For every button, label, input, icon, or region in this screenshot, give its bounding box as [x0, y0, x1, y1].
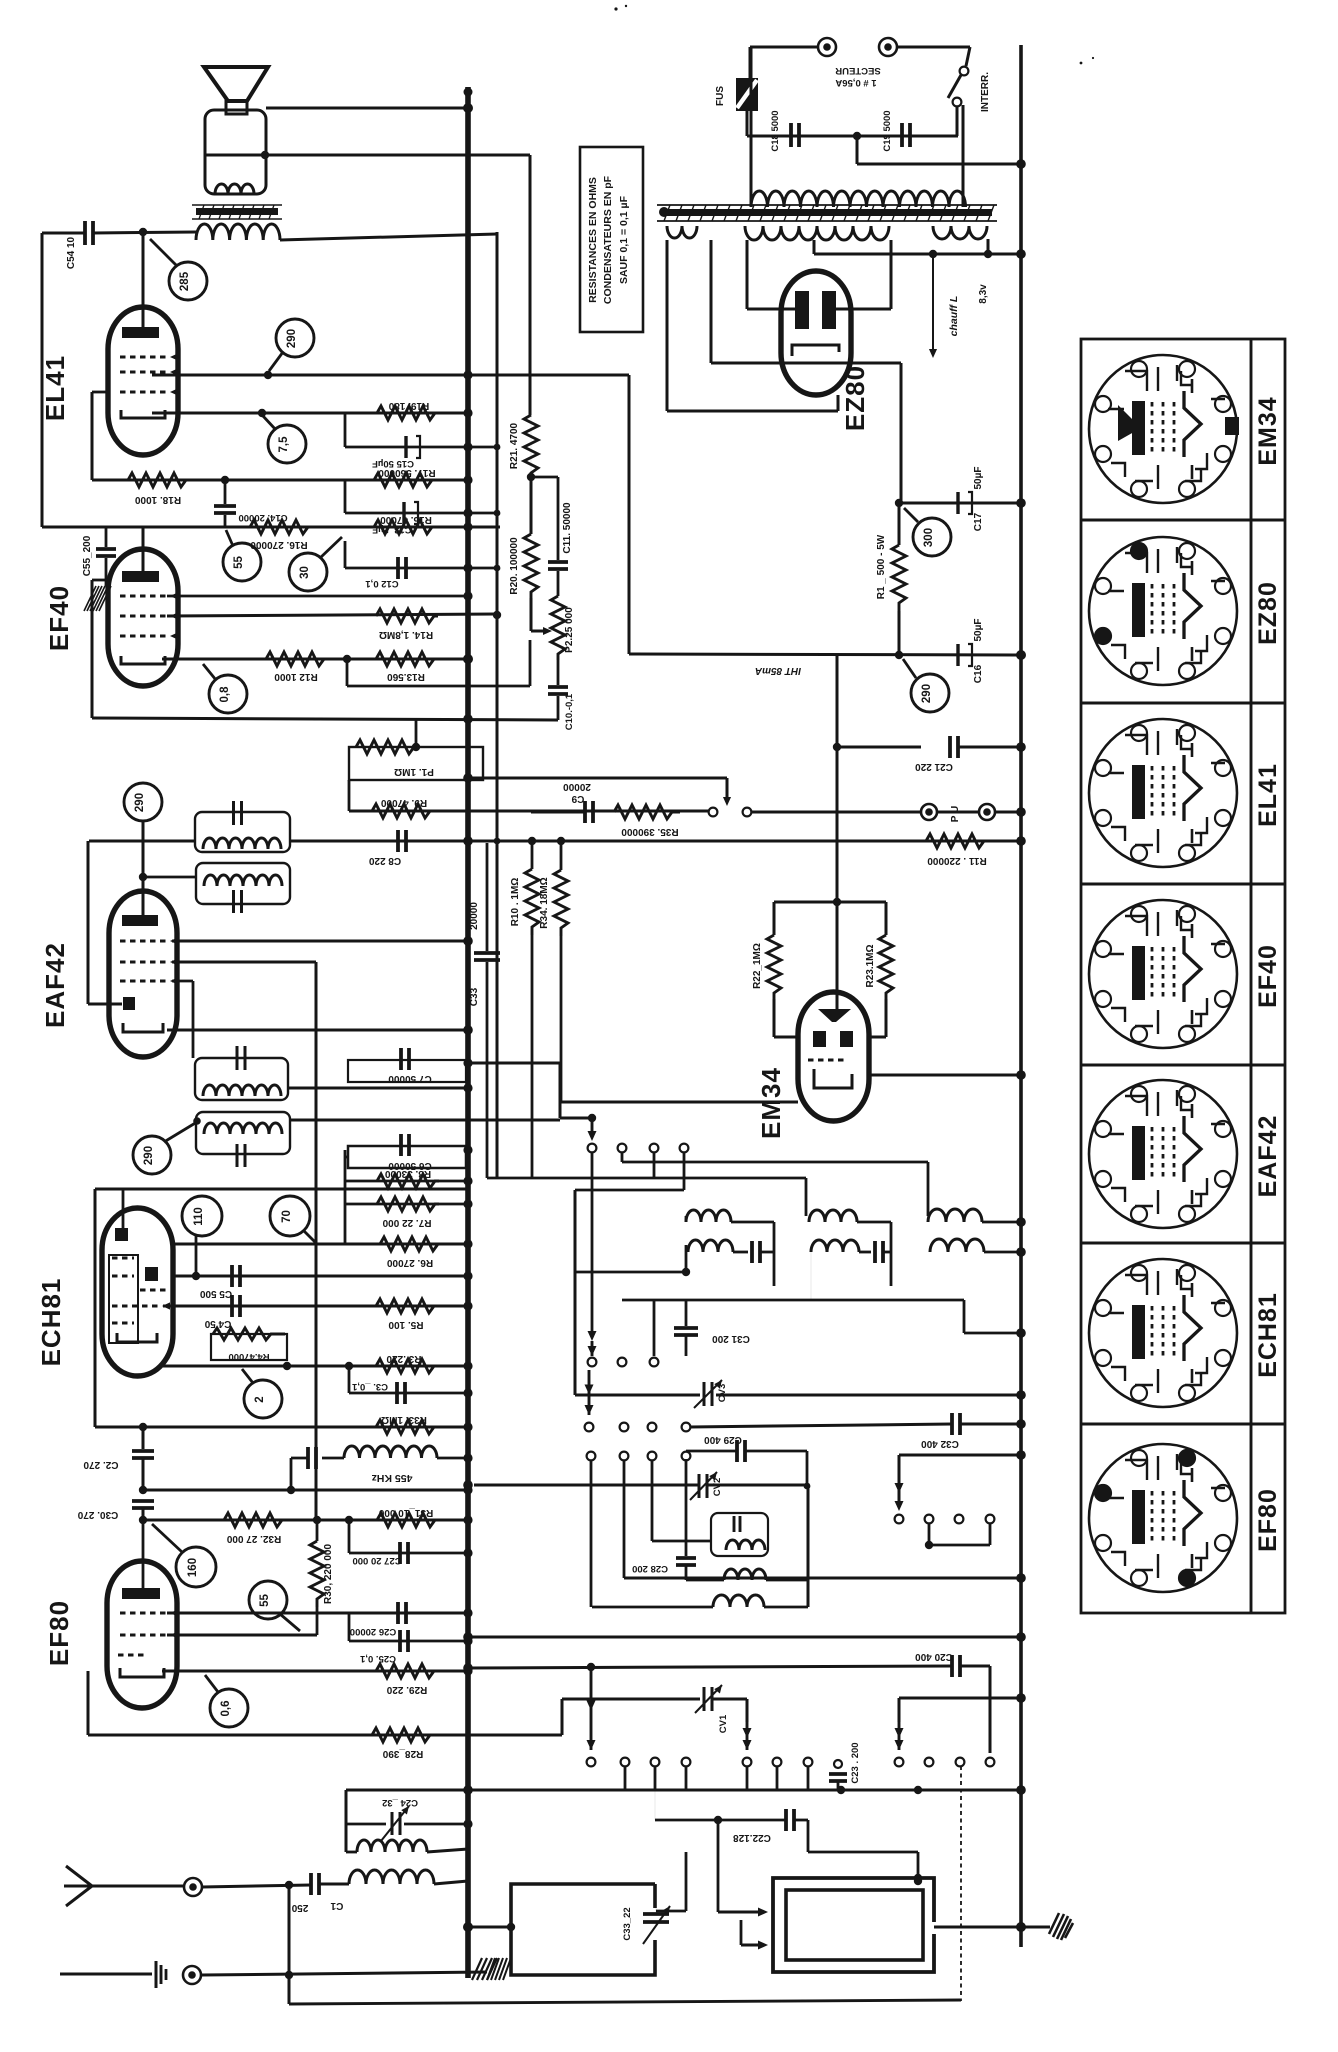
svg-text:C27 20 000: C27 20 000 [352, 1555, 401, 1566]
svg-text:R30, 220 000: R30, 220 000 [323, 1544, 334, 1604]
tube EAF42 envelope [109, 891, 177, 1057]
switch column [591, 1152, 594, 1334]
wire screen line [152, 374, 629, 377]
resistor R11 220000 [926, 834, 988, 848]
capacitor C54 10 [42, 232, 85, 235]
tube chart frame [1081, 339, 1285, 1613]
svg-text:EM34: EM34 [756, 1067, 786, 1139]
svg-text:C22.128: C22.128 [733, 1832, 771, 1843]
wire wave band line [346, 1789, 1021, 1792]
capacitor C31 200 [685, 1300, 688, 1326]
capacitor C30 270 [132, 1499, 154, 1503]
bus bottom ground hatch [472, 1958, 497, 1980]
svg-text:R22_1MΩ: R22_1MΩ [752, 943, 763, 989]
wire box1 to bus [468, 1926, 511, 1929]
svg-text:C24 _32: C24 _32 [382, 1797, 418, 1808]
wire EM34 cathode to bus [869, 1074, 1021, 1077]
svg-text:C20 400: C20 400 [915, 1651, 953, 1662]
wire HT left anode [746, 240, 749, 309]
wire rectifier heater loop [666, 240, 669, 411]
svg-text:C26 20000: C26 20000 [350, 1626, 396, 1637]
wire C22 line [654, 1766, 656, 1820]
IF transformer box 3 [195, 1058, 288, 1100]
tube socket EM34 electrodes [1132, 401, 1145, 455]
wire IF1 left lead [89, 840, 195, 843]
tube socket ECH81 pins [1179, 1265, 1195, 1281]
svg-text:C2. 270: C2. 270 [83, 1459, 118, 1470]
svg-text:C25. 0,1: C25. 0,1 [359, 1653, 396, 1664]
wire [651, 1460, 654, 1541]
wire box2 feeds [717, 1820, 720, 1912]
wire heater arrow [932, 254, 934, 352]
capacitor C27 20000 [348, 1520, 351, 1553]
tube EZ80 envelope [781, 271, 851, 395]
svg-text:C23 . 200: C23 . 200 [850, 1742, 861, 1783]
tube EF40 grids [120, 595, 166, 598]
svg-text:C29 400: C29 400 [704, 1434, 742, 1445]
tube chart label divider [1250, 339, 1253, 1613]
node 290 screen [276, 319, 314, 357]
coil 455 ter [713, 1595, 764, 1607]
capacitor C4 50 [163, 1305, 468, 1308]
node 0,8 [209, 675, 247, 713]
ground terminal lead [60, 1973, 152, 1976]
tube socket EAF42 pins [1179, 1086, 1195, 1102]
capacitor C10 0,1 [557, 660, 560, 685]
wire IF3 right lead [288, 1087, 468, 1090]
resistor R19 180 [377, 406, 441, 420]
svg-text:0,6: 0,6 [220, 1701, 232, 1717]
switch wiper arrow rows [588, 1370, 591, 1415]
svg-text:C54 10: C54 10 [66, 236, 77, 269]
wire anode drop [142, 232, 145, 330]
tube socket EL41 circle [1089, 719, 1237, 867]
tube EF80 anode [122, 1588, 160, 1599]
svg-text:R13.560: R13.560 [387, 671, 425, 682]
svg-text:250: 250 [291, 1902, 308, 1913]
capacitor C1 250 [202, 1885, 311, 1887]
wire IF2 left lead [143, 876, 196, 879]
tuning gang box 2 [773, 1878, 934, 1972]
wire fuse out [746, 111, 749, 136]
switch contact stubs [624, 1766, 627, 1790]
svg-text:EZ80: EZ80 [840, 365, 870, 431]
svg-text:ECH81: ECH81 [36, 1278, 66, 1367]
coil IF3 [203, 1085, 281, 1096]
svg-text:C3. _0,1: C3. _0,1 [351, 1381, 388, 1392]
svg-text:CV2: CV2 [712, 1478, 723, 1496]
tube socket EF80 circle [1089, 1444, 1237, 1592]
tube socket EF80 electrodes [1132, 1490, 1145, 1544]
svg-text:285: 285 [179, 271, 191, 291]
svg-text:CV3: CV3 [717, 1384, 728, 1402]
svg-text:C21 220: C21 220 [915, 761, 953, 772]
svg-text:EAF42: EAF42 [1254, 1115, 1282, 1198]
resistor R32 27000 [224, 1513, 282, 1527]
wire CV1 step [562, 1698, 700, 1701]
switch contacts row 2 [588, 1358, 597, 1367]
wire [621, 1152, 624, 1162]
capacitor C23 200 [834, 1760, 842, 1768]
resistor R5 100 [376, 1299, 438, 1313]
tube socket EL41 internal wiring [1108, 729, 1225, 853]
svg-text:IHT 85mA: IHT 85mA [755, 665, 801, 676]
tube EL41 envelope [108, 307, 178, 455]
svg-text:C31 200: C31 200 [712, 1333, 750, 1344]
wire main HT bus [465, 87, 471, 1978]
node 300 [913, 518, 951, 556]
mains terminal 1 [818, 38, 836, 56]
svg-text:C55_200: C55_200 [82, 535, 93, 576]
wire IF1 to bus [290, 840, 1021, 843]
node 160 [176, 1547, 216, 1587]
resistor R8 33000 [345, 1180, 468, 1183]
svg-text:R11 . 220000: R11 . 220000 [927, 855, 987, 866]
svg-text:455 KHz: 455 KHz [372, 1472, 413, 1484]
node 55 [223, 543, 261, 581]
tube ECH81 cathode [117, 1333, 157, 1342]
tube EL41 grids [120, 356, 166, 359]
wire R9 screen line [348, 780, 351, 811]
wire right ground bus [1019, 45, 1023, 1947]
svg-text:C12 0,1: C12 0,1 [365, 578, 399, 589]
wire antenna down lead [288, 1885, 291, 2004]
tube chart divider [1081, 702, 1285, 705]
tube socket EZ80 circle [1089, 537, 1237, 685]
svg-text:300: 300 [923, 528, 935, 547]
svg-text:C16: C16 [973, 664, 984, 683]
tube EM34 grid [808, 1059, 848, 1062]
node 55 EF80 [249, 1581, 287, 1619]
capacitor C15 50uF [344, 413, 347, 447]
ground hatch pad [487, 1958, 511, 1980]
tube chart divider [1081, 1064, 1285, 1067]
resistor R23 1M [885, 902, 888, 935]
svg-text:SECTEUR: SECTEUR [835, 65, 881, 76]
svg-text:C32 400: C32 400 [921, 1438, 959, 1449]
IF transformer box 4 [196, 1112, 290, 1154]
wire diode return [561, 1101, 798, 1104]
coil IF4 [204, 1123, 282, 1134]
oscillator coil L6a [928, 1209, 982, 1222]
svg-text:R1 _ 500 - 5W: R1 _ 500 - 5W [876, 534, 887, 599]
wire [496, 232, 499, 1178]
node 0,6 [210, 1689, 248, 1727]
tube socket ECH81 circle [1089, 1259, 1237, 1407]
svg-text:FUS: FUS [715, 86, 726, 106]
svg-text:290: 290 [134, 793, 146, 812]
wire EF80 anode feed [142, 1520, 145, 1592]
antenna coil L2 [357, 1840, 427, 1852]
switch contacts row 4 [587, 1452, 596, 1461]
svg-text:R18. 1000: R18. 1000 [134, 494, 181, 505]
node 290 osc [133, 1136, 171, 1174]
antenna [66, 1866, 92, 1886]
ground terminal [183, 1966, 201, 1984]
ground symbol [155, 1961, 158, 1988]
resistor R31 10000 [377, 1513, 435, 1527]
tube socket EF40 electrodes [1132, 946, 1145, 1000]
svg-text:290: 290 [143, 1146, 155, 1165]
svg-text:C1: C1 [330, 1900, 343, 1911]
coil IF2 [204, 875, 282, 886]
IF transformer box 2 [196, 863, 290, 904]
svg-text:C10.-0,1: C10.-0,1 [564, 693, 575, 730]
svg-text:C30. 270: C30. 270 [77, 1509, 118, 1520]
tube ECH81 grids [112, 1257, 134, 1260]
tube ECH81 triode box [109, 1255, 138, 1343]
mains terminal 2 [879, 38, 897, 56]
wire left border [41, 233, 44, 527]
resistor R10 1M [531, 841, 534, 869]
svg-text:R6. 27000: R6. 27000 [386, 1257, 433, 1268]
resistor R29 220 [376, 1664, 440, 1678]
svg-text:C33_22: C33_22 [622, 1907, 633, 1940]
wire long rail [468, 1636, 1021, 1639]
capacitor C19 5000 [900, 123, 904, 147]
svg-text:R8. 33000: R8. 33000 [384, 1168, 431, 1179]
wire plate line [280, 234, 497, 240]
svg-text:EZ80: EZ80 [1254, 581, 1282, 645]
svg-text:RESISTANCES EN OHMS: RESISTANCES EN OHMS [587, 177, 599, 303]
node 290 EAF42 [124, 783, 162, 821]
wire R18 line [92, 479, 468, 482]
tube EZ80 anodes [795, 291, 809, 329]
wire to PU [752, 811, 921, 814]
capacitor IF3 tuning [236, 1046, 239, 1070]
variable capacitor CV3 [703, 1382, 706, 1406]
wire cathode line [152, 412, 468, 415]
speaker LS1 [204, 67, 268, 101]
tube EF80 envelope [107, 1561, 177, 1708]
svg-text:C28 200: C28 200 [632, 1563, 668, 1574]
tube EM34 cathode [814, 1069, 852, 1088]
svg-text:EL41: EL41 [40, 355, 70, 421]
wire [683, 1152, 686, 1190]
svg-text:C9: C9 [571, 793, 584, 804]
wire EM34 grid line [774, 901, 886, 904]
svg-text:55: 55 [233, 556, 245, 569]
capacitor C7 50000 [348, 1060, 466, 1082]
svg-text:R3 .220: R3 .220 [386, 1353, 421, 1364]
wire grid line EF80 [143, 1519, 468, 1522]
svg-text:50µF: 50µF [973, 467, 984, 490]
capacitor C14 20000 [224, 480, 227, 504]
capacitor C33 20000 [486, 843, 489, 951]
resistor R1 500 5W [898, 503, 901, 545]
svg-text:P1. 1MΩ: P1. 1MΩ [394, 766, 434, 777]
wire grid line EF40 [167, 595, 468, 598]
speaker voice coil [215, 184, 254, 194]
svg-text:INTERR.: INTERR. [980, 72, 991, 112]
transformer 455 KHz [306, 1447, 310, 1469]
node 290 B+ [911, 674, 949, 712]
svg-text:7,5: 7,5 [278, 436, 290, 453]
capacitor C32 400 [690, 1424, 952, 1427]
antenna coil L1 [349, 1870, 434, 1884]
svg-text:EL41: EL41 [1254, 763, 1282, 827]
tube EAF42 diode plate [123, 997, 135, 1010]
tube socket EZ80 electrodes [1132, 583, 1145, 637]
capacitor C18 5000 [789, 123, 793, 147]
svg-text:R35. 390000: R35. 390000 [621, 826, 679, 837]
resistor R33 1M [376, 1420, 436, 1434]
resistor R7 22000 [345, 1203, 468, 1206]
resistor R15 47000 [374, 520, 438, 534]
svg-text:EF40: EF40 [44, 585, 74, 651]
svg-text:R31_10 000: R31_10 000 [378, 1507, 433, 1518]
wire cathode line EF80 [162, 1670, 468, 1673]
wire [529, 155, 532, 415]
coil 455 sec [724, 1569, 766, 1580]
potentiometer P1 1M [415, 718, 418, 747]
svg-text:C8 220: C8 220 [368, 855, 401, 866]
wire ground line [202, 1972, 487, 1975]
tube socket EF40 pins [1179, 906, 1195, 922]
wire osc return [575, 1271, 686, 1274]
wire AVC line [172, 961, 316, 964]
svg-text:C19 5000: C19 5000 [882, 110, 893, 151]
resistor R9 47000 [372, 804, 436, 818]
switch wiper 6 [746, 1699, 749, 1722]
wire screen line EAF42 [172, 940, 468, 943]
resistor R17 560000 [374, 473, 438, 487]
capacitor C20 400 [950, 1655, 954, 1677]
svg-text:C11. 50000: C11. 50000 [562, 502, 573, 554]
svg-text:ECH81: ECH81 [1254, 1292, 1282, 1378]
wire triode grid line [163, 1365, 468, 1368]
capacitor C29 400 [686, 1450, 737, 1453]
tube socket EM34 pins [1179, 361, 1195, 377]
svg-text:20000: 20000 [563, 781, 591, 792]
transformer T1 heater winding B [933, 226, 987, 239]
ground pad right [1049, 1913, 1073, 1940]
transformer 455 KHz 2 [711, 1513, 768, 1556]
tube socket EF40 internal wiring [1108, 910, 1225, 1034]
transformer T1 primary [751, 191, 966, 207]
tube EAF42 cathode [123, 1023, 163, 1032]
resistor R14 1,8M [376, 609, 438, 623]
tube EF40 envelope [108, 549, 178, 686]
switch contacts row 3 [585, 1423, 594, 1432]
tube EF80 cathode [120, 1668, 164, 1677]
wire IF4 right lead [290, 1119, 560, 1122]
wire box2 to bus [934, 1926, 1021, 1929]
tube chart divider [1081, 519, 1285, 522]
tube ECH81 anode top [115, 1228, 128, 1241]
ground shield hatch [84, 586, 111, 611]
wire grid bracket [87, 841, 90, 1004]
wire R28 line [88, 1734, 562, 1737]
tube chart divider [1081, 883, 1285, 886]
svg-text:R23.1MΩ: R23.1MΩ [865, 944, 876, 987]
svg-text:P U: P U [950, 806, 961, 823]
capacitor C6 50000 [344, 1150, 347, 1244]
tube socket EL41 pins [1179, 725, 1195, 741]
wire cathode line EAF42 [167, 1029, 468, 1032]
tube socket EM34 internal wiring [1108, 365, 1225, 489]
capacitor C26 20000 [167, 1612, 468, 1615]
resistor R12 1000 [266, 652, 324, 666]
svg-text:55: 55 [259, 1594, 271, 1607]
svg-text:290: 290 [286, 329, 298, 348]
wire arrow right group [899, 1454, 1021, 1457]
capacitor IF1 tuning [232, 801, 235, 825]
transformer T1 heater winding A [667, 226, 697, 238]
resistor R20 100000 [530, 477, 533, 534]
svg-text:chauff L: chauff L [948, 296, 960, 337]
oscillator coil L4b [688, 1240, 733, 1252]
tube EF40 cathode [121, 656, 165, 664]
svg-text:EM34: EM34 [1254, 396, 1282, 465]
svg-text:R7. 22 000: R7. 22 000 [382, 1217, 431, 1228]
tube EAF42 anode [122, 915, 158, 926]
switch wiper arrow 1 [591, 1118, 594, 1136]
resistor R22 1M [773, 902, 776, 935]
switch contacts row 1 [588, 1144, 597, 1153]
svg-text:R15. 47000: R15. 47000 [380, 514, 432, 525]
wire C20 line [468, 1666, 952, 1668]
tube ECH81 anode 2 [145, 1267, 158, 1281]
oscillator block box 1 [511, 1884, 655, 1975]
tube EM34 envelope [798, 992, 869, 1121]
capacitor C28 200 [685, 1459, 688, 1556]
potentiometer P2 25000 [530, 598, 533, 631]
wire HT right anode [890, 240, 893, 309]
wire dashed column [960, 1766, 962, 2001]
node plate junction [139, 228, 147, 236]
capacitor C8 220 [396, 830, 400, 852]
oscillator coil L5a [809, 1210, 857, 1222]
fuse FUS [736, 78, 758, 111]
node [527, 473, 535, 481]
box resistances en ohms note [580, 147, 643, 332]
tube socket EM34 fan target [1118, 405, 1141, 441]
node 110 [182, 1196, 222, 1236]
output transformer T2 primary [196, 224, 280, 240]
resistor R35 390000 [614, 805, 680, 819]
wire [653, 1152, 656, 1178]
wire [656, 1910, 686, 1913]
tube socket EM34 circle [1089, 355, 1237, 503]
tube EF40 anode [122, 571, 159, 582]
tube socket EF80 pins [1179, 1450, 1195, 1466]
resistor R18 1000 [128, 473, 188, 487]
svg-text:2: 2 [254, 1396, 266, 1402]
svg-text:R34. 18MΩ: R34. 18MΩ [539, 877, 550, 928]
wire EM34 target feed [836, 655, 839, 1009]
resistor R13 560 [376, 652, 436, 666]
svg-text:R10 . 1MΩ: R10 . 1MΩ [510, 878, 521, 927]
resistor R16 270000 [250, 520, 308, 534]
resistor R21 4700 [530, 415, 532, 477]
svg-text:R4.47000: R4.47000 [228, 1351, 269, 1362]
svg-text:C18 5000: C18 5000 [770, 110, 781, 151]
switch contacts row right [895, 1515, 904, 1524]
tube chart divider [1081, 1242, 1285, 1245]
capacitor C11 50000 [531, 476, 558, 479]
wire grid3 [172, 980, 193, 983]
tube socket EL41 electrodes [1132, 765, 1145, 819]
svg-text:50µF: 50µF [973, 619, 984, 642]
resistor R28 390 [372, 1728, 436, 1742]
wire cathode output [900, 363, 903, 503]
node 285 [150, 239, 176, 265]
svg-text:8,3v: 8,3v [978, 284, 989, 304]
svg-text:20000: 20000 [469, 902, 480, 930]
svg-text:C7 50000: C7 50000 [388, 1073, 432, 1084]
capacitor C17 50uF [899, 502, 1021, 505]
